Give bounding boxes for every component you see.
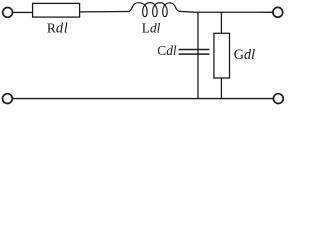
terminal top-left bbox=[3, 7, 13, 17]
terminal bottom-left bbox=[3, 94, 13, 104]
terminal bottom-right bbox=[273, 94, 283, 104]
wire capacitor branch vertical bbox=[197, 12, 199, 98]
conductance G (box) bbox=[214, 33, 230, 78]
wire G branch bottom stub bbox=[220, 78, 222, 99]
wire G branch top stub bbox=[220, 12, 222, 33]
wire inductor to terminal top-right bbox=[180, 10, 273, 13]
wire resistor to inductor bbox=[80, 11, 129, 13]
svg-text:Cdl: Cdl bbox=[157, 43, 177, 58]
wire bottom rail bbox=[13, 98, 274, 100]
svg-text:Gdl: Gdl bbox=[234, 47, 255, 63]
capacitor C plates bbox=[179, 50, 209, 55]
resistor R (box) bbox=[33, 3, 80, 17]
inductor L (coil) bbox=[128, 3, 180, 17]
wire terminal to resistor bbox=[13, 11, 33, 13]
terminal top-right bbox=[273, 7, 283, 17]
svg-text:Ldl: Ldl bbox=[142, 21, 161, 36]
svg-text:Rdl: Rdl bbox=[47, 20, 69, 36]
